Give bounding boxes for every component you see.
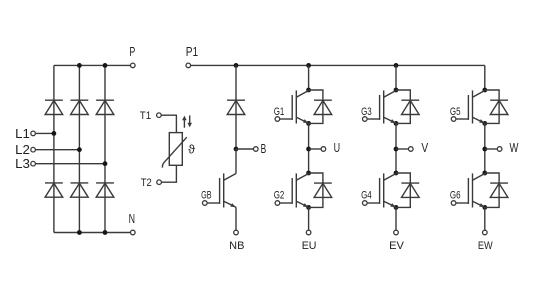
junction leg V top collector	[394, 88, 399, 93]
svg-text:G5: G5	[450, 106, 461, 118]
IGBT collector lead	[296, 174, 308, 181]
gate terminal G2	[275, 201, 280, 206]
svg-text:W: W	[510, 141, 519, 155]
IGBT collector lead	[473, 174, 485, 181]
wire emitter EW	[484, 207, 486, 230]
wire DC+ bus rail	[191, 64, 485, 66]
junction top rail col3	[103, 63, 108, 68]
svg-text:B: B	[261, 142, 267, 156]
diode D1 (upper)	[45, 99, 63, 101]
junction leg V bottom collector	[394, 171, 399, 176]
terminal P	[131, 63, 136, 68]
svg-text:L1: L1	[15, 127, 30, 141]
terminal NB	[234, 230, 239, 235]
wire rectifier leg 3	[104, 65, 106, 232]
wire rectifier leg 2	[78, 65, 80, 232]
gate terminal G3	[363, 117, 368, 122]
svg-text:EU: EU	[302, 240, 317, 252]
diode DF3a freewheel	[490, 99, 508, 101]
gate lead wire GB	[207, 202, 219, 204]
IGBT gate bar	[219, 178, 221, 204]
wire freewheel branch bottom W	[485, 173, 499, 207]
gate lead wire G5	[456, 118, 468, 120]
wire B to brake IGBT collector	[235, 149, 237, 174]
gate terminal GB	[203, 201, 208, 206]
IGBT emitter lead with arrow	[384, 201, 396, 207]
junction leg W top emitter	[482, 121, 487, 126]
junction node W	[482, 147, 487, 152]
svg-text:N: N	[129, 212, 135, 226]
diode D4 (lower)	[45, 182, 63, 184]
IGBT gate bar	[467, 178, 469, 204]
terminal L2	[31, 147, 36, 152]
gate terminal G4	[363, 201, 368, 206]
svg-text:U: U	[334, 141, 341, 155]
terminal P1	[186, 63, 191, 68]
IGBT collector lead	[296, 91, 308, 98]
junction bottom rail col3	[103, 230, 108, 235]
IGBT gate bar	[467, 95, 469, 120]
wire emitter EU	[308, 207, 310, 230]
wire thermistor to T2	[161, 165, 176, 182]
wire L1 input	[35, 132, 54, 134]
junction node L3	[103, 161, 108, 166]
gate lead wire G4	[367, 202, 379, 204]
IGBT gate bar	[291, 95, 293, 120]
svg-text:NB: NB	[229, 240, 244, 252]
gate lead wire G2	[280, 202, 292, 204]
svg-text:G1: G1	[274, 106, 285, 118]
IGBT emitter lead with arrow	[296, 201, 308, 207]
junction node U	[306, 147, 311, 152]
svg-text:G3: G3	[361, 106, 372, 118]
svg-text:ϑ: ϑ	[188, 143, 195, 157]
wire freewheel branch top U	[309, 90, 323, 123]
wire node V stub	[396, 148, 409, 150]
diode D5 (lower)	[71, 182, 89, 184]
gate terminal G5	[451, 117, 456, 122]
svg-text:L2: L2	[15, 143, 30, 157]
junction leg W bottom collector	[482, 171, 487, 176]
IGBT body bar	[295, 90, 297, 123]
diode D7 brake	[227, 99, 245, 101]
svg-text:P: P	[129, 45, 135, 59]
IGBT body bar	[472, 90, 474, 123]
terminal T1	[157, 113, 162, 118]
wire node W stub	[485, 148, 498, 150]
svg-text:G4: G4	[361, 190, 372, 202]
wire freewheel branch top W	[485, 90, 499, 123]
IGBT emitter lead with arrow	[296, 117, 308, 123]
IGBT body bar	[295, 173, 297, 207]
terminal B	[254, 147, 259, 152]
diode DF2b freewheel	[401, 182, 419, 184]
diode DF2a freewheel	[401, 99, 419, 101]
svg-text:V: V	[421, 141, 428, 155]
IGBT body bar	[383, 173, 385, 207]
IGBT collector lead	[224, 174, 236, 181]
wire T1 to thermistor	[161, 115, 176, 132]
wire leg U from rail	[308, 65, 310, 90]
IGBT collector lead	[384, 91, 396, 98]
gate terminal G6	[451, 201, 456, 206]
thermistor strike line	[162, 137, 186, 167]
IGBT gate bar	[379, 178, 381, 204]
IGBT body bar	[472, 173, 474, 207]
junction bottom rail col2	[77, 230, 82, 235]
wire leg V from rail	[395, 65, 397, 90]
gate lead wire G6	[456, 202, 468, 204]
diode D3 (upper)	[96, 99, 114, 101]
wire leg W from rail	[484, 65, 486, 90]
junction rail brake	[234, 63, 239, 68]
IGBT collector lead	[473, 91, 485, 98]
svg-text:G6: G6	[450, 190, 461, 202]
terminal N	[131, 230, 136, 235]
junction leg U bottom emitter	[306, 205, 311, 210]
wire freewheel branch bottom U	[309, 173, 323, 207]
wire freewheel branch top V	[396, 90, 410, 123]
svg-text:EW: EW	[478, 240, 493, 252]
svg-text:T1: T1	[140, 110, 151, 122]
wire brake emitter to NB	[235, 207, 237, 230]
junction top rail col2	[77, 63, 82, 68]
wire mid W	[484, 123, 486, 173]
junction node L1	[52, 131, 57, 136]
junction node V	[394, 147, 399, 152]
wire L3 input	[35, 163, 105, 165]
terminal L1	[31, 131, 36, 136]
IGBT gate bar	[291, 178, 293, 204]
diode DF1b freewheel	[314, 182, 332, 184]
junction leg U top collector	[306, 88, 311, 93]
terminal EW	[483, 230, 488, 235]
IGBT body bar	[223, 173, 225, 207]
diode D6 (lower)	[96, 182, 114, 184]
junction leg V bottom emitter	[394, 205, 399, 210]
svg-text:L3: L3	[15, 157, 30, 171]
wire rectifier negative rail to N	[54, 232, 131, 234]
IGBT body bar	[383, 90, 385, 123]
IGBT collector lead	[384, 174, 396, 181]
junction node B	[234, 147, 239, 152]
wire L2 input	[35, 149, 79, 151]
wire rectifier positive rail to P	[54, 64, 131, 66]
junction leg W top collector	[482, 88, 487, 93]
IGBT emitter lead with arrow	[384, 117, 396, 123]
junction leg U top emitter	[306, 121, 311, 126]
wire rectifier leg 1	[53, 65, 55, 232]
junction node L2	[77, 147, 82, 152]
terminal T2	[157, 180, 162, 185]
IGBT gate bar	[379, 95, 381, 120]
wire freewheel branch bottom V	[396, 173, 410, 207]
terminal U	[321, 147, 326, 152]
wire node B stub	[236, 148, 254, 150]
junction rail leg U	[306, 63, 311, 68]
IGBT emitter lead with arrow	[473, 117, 485, 123]
IGBT emitter lead with arrow	[473, 201, 485, 207]
terminal L3	[31, 161, 36, 166]
IGBT emitter lead with arrow	[224, 201, 236, 207]
temperature down arrow	[189, 115, 191, 123]
svg-text:G2: G2	[274, 190, 285, 202]
svg-text:T2: T2	[141, 177, 152, 189]
junction leg W bottom emitter	[482, 205, 487, 210]
gate lead wire G1	[280, 118, 292, 120]
terminal EU	[306, 230, 311, 235]
svg-text:EV: EV	[389, 240, 405, 252]
terminal V	[409, 147, 414, 152]
svg-text:GB: GB	[201, 190, 211, 202]
diode DF3b freewheel	[490, 182, 508, 184]
junction rail leg V	[394, 63, 399, 68]
diode DF1a freewheel	[314, 99, 332, 101]
thermistor RT body	[169, 133, 182, 166]
temperature up arrow	[183, 120, 185, 128]
wire emitter EV	[395, 207, 397, 230]
wire mid V	[395, 123, 397, 173]
terminal EV	[394, 230, 399, 235]
wire mid U	[308, 123, 310, 173]
wire node U stub	[309, 148, 322, 150]
svg-text:P1: P1	[186, 45, 198, 59]
wire brake branch	[235, 65, 237, 149]
junction leg U bottom collector	[306, 171, 311, 176]
diode D2 (upper)	[71, 99, 89, 101]
gate terminal G1	[275, 117, 280, 122]
gate lead wire G3	[367, 118, 379, 120]
terminal W	[497, 147, 502, 152]
junction leg V top emitter	[394, 121, 399, 126]
